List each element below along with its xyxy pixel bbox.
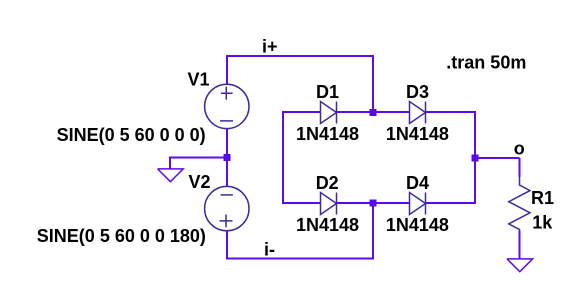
svg-text:i-: i- [264, 240, 275, 260]
junction center tap [224, 154, 231, 161]
wire V2 bottom lead [226, 230, 228, 259]
wire anode bus left vertical [282, 111, 284, 204]
svg-text:i+: i+ [262, 37, 278, 57]
wire D1 anode [282, 111, 321, 113]
junction D1-D3 node i+ [370, 109, 377, 116]
diode D4 [410, 193, 426, 215]
wire D3 cathode to output riser [426, 111, 476, 113]
wire junction to D4 anode [373, 202, 410, 204]
svg-text:1N4148: 1N4148 [296, 215, 359, 235]
wire R1 bottom lead [519, 231, 521, 259]
svg-text:D3: D3 [406, 82, 429, 102]
wire node o to R1 [475, 157, 520, 159]
wire output riser [474, 111, 476, 204]
svg-text:1k: 1k [532, 213, 553, 233]
svg-text:D2: D2 [316, 173, 339, 193]
voltage source V1 [205, 84, 249, 128]
wire D4 cathode to output riser [426, 202, 476, 204]
ground output [507, 259, 533, 272]
voltage source V2 [205, 186, 249, 230]
wire V1 to center tap [226, 128, 228, 158]
ground center tap [158, 169, 184, 182]
wire center tap to ground [170, 158, 227, 170]
diode D3 [410, 102, 426, 124]
svg-text:D1: D1 [316, 82, 339, 102]
wire center tap to V2 [226, 158, 228, 187]
svg-text:o: o [514, 139, 525, 159]
svg-text:.tran 50m: .tran 50m [446, 53, 526, 73]
svg-text:SINE(0 5 60 0 0 180): SINE(0 5 60 0 0 180) [37, 226, 206, 246]
resistor R1 [509, 177, 530, 231]
wire i- bottom [226, 258, 374, 260]
svg-text:V1: V1 [188, 70, 210, 90]
junction node o [472, 155, 479, 162]
svg-text:1N4148: 1N4148 [386, 124, 449, 144]
diode D1 [321, 102, 337, 124]
diode D2 [321, 193, 337, 215]
wire D1 cathode to junction i+ [337, 111, 373, 113]
wire i+ riser [372, 55, 374, 112]
svg-text:SINE(0 5 60 0 0 0): SINE(0 5 60 0 0 0) [57, 125, 206, 145]
wire D2 cathode to junction i- [337, 202, 373, 204]
svg-text:D4: D4 [406, 173, 429, 193]
wire i- riser [372, 203, 374, 259]
svg-text:1N4148: 1N4148 [386, 215, 449, 235]
svg-text:V2: V2 [189, 172, 211, 192]
wire R1 top lead [519, 158, 521, 177]
junction D2-D4 node i- [370, 200, 377, 207]
wire i+ top [226, 55, 374, 57]
svg-text:R1: R1 [531, 188, 554, 208]
wire V1 top lead [226, 55, 228, 85]
svg-text:1N4148: 1N4148 [296, 124, 359, 144]
wire D2 anode [282, 202, 321, 204]
wire junction to D3 anode [373, 111, 410, 113]
